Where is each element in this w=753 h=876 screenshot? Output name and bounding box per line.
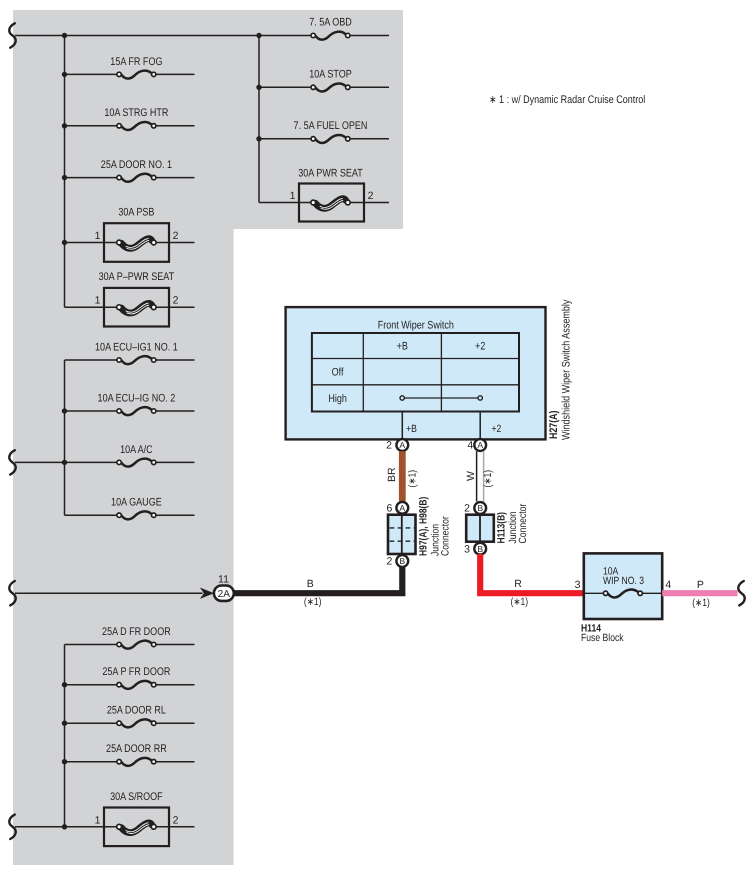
fuse box panel (lower): [13, 229, 234, 865]
svg-text:A: A: [477, 440, 483, 450]
svg-text:BR: BR: [386, 467, 398, 482]
svg-text:4: 4: [665, 579, 671, 591]
wire: left vertical bus segment 1: [64, 36, 66, 308]
svg-text:∗ 1 : w/ Dynamic Radar Cruise: ∗ 1 : w/ Dynamic Radar Cruise Control: [489, 94, 645, 106]
pin 2 (B) of junction connector H113: [464, 502, 486, 515]
svg-text:R: R: [514, 578, 522, 590]
svg-text:25A DOOR RR: 25A DOOR RR: [106, 743, 167, 755]
junction dot: [256, 85, 261, 90]
svg-text:B: B: [477, 544, 483, 554]
svg-text:+B: +B: [406, 423, 417, 435]
wire: feeder to 10A A/C row: [15, 461, 65, 463]
svg-text:2: 2: [464, 503, 470, 515]
svg-text:H97(A), H98(B): H97(A), H98(B): [418, 497, 430, 556]
svg-text:30A PWR SEAT: 30A PWR SEAT: [298, 167, 363, 179]
fuse 10A STOP: [259, 69, 389, 92]
fuse 30A P–PWR SEAT (cartridge): [65, 271, 195, 326]
fuse 25A D FR DOOR: [65, 626, 195, 649]
svg-text:4: 4: [467, 440, 473, 452]
designation H97(A), H98(B) Junction Connector: [418, 497, 452, 556]
wire: feeder to splice 2A: [15, 592, 203, 594]
pin 2 (B) of junction connector H97: [386, 555, 408, 568]
svg-text:10A GAUGE: 10A GAUGE: [111, 497, 162, 509]
continuation squiggle (right): [738, 581, 744, 605]
wire: right vertical bus: [258, 36, 260, 203]
svg-text:Connector: Connector: [440, 516, 452, 556]
junction dot: [62, 72, 67, 77]
junction dot: [62, 175, 67, 180]
fuse 30A S/ROOF (cartridge): [65, 791, 195, 846]
wire B (black) from H97 pin B to splice 2A: [234, 566, 403, 593]
wire: feeder to 30A S/ROOF row: [15, 826, 65, 828]
svg-text:A: A: [399, 440, 405, 450]
wire: +2 stub inside switch: [479, 412, 481, 439]
wire: left vertical bus segment 3: [64, 645, 66, 827]
pin 6 (A) of junction connector H97: [386, 502, 408, 515]
svg-text:25A P FR DOOR: 25A P FR DOOR: [102, 666, 170, 678]
continuation squiggle (2A feeder): [9, 581, 15, 605]
svg-text:B: B: [399, 556, 405, 566]
svg-text:15A FR FOG: 15A FR FOG: [110, 56, 162, 68]
svg-text:10A STOP: 10A STOP: [309, 69, 352, 81]
fuse box panel (upper): [13, 10, 403, 229]
svg-text:(∗1): (∗1): [482, 470, 494, 488]
svg-text:Windshield Wiper Switch Assemb: Windshield Wiper Switch Assembly: [561, 299, 573, 440]
continuation squiggle (S/ROOF feeder): [9, 815, 15, 839]
svg-text:7. 5A OBD: 7. 5A OBD: [309, 17, 352, 29]
fuse 25A DOOR NO. 1: [65, 159, 195, 182]
svg-text:Fuse Block: Fuse Block: [581, 632, 624, 644]
switch H27(A) Front Wiper Switch assembly box: [286, 307, 546, 439]
fuse 25A P FR DOOR: [65, 666, 195, 689]
svg-text:6: 6: [386, 503, 392, 515]
junction dot: [62, 123, 67, 128]
junction dot: [62, 460, 67, 465]
svg-text:2: 2: [173, 295, 179, 307]
fuse block H114 body: [584, 553, 662, 619]
svg-text:H113(B): H113(B): [495, 512, 507, 544]
svg-text:3: 3: [575, 579, 581, 591]
arrowhead into splice 2A: [200, 588, 214, 599]
junction dot: [62, 824, 67, 829]
fuse 25A DOOR RL: [65, 705, 195, 728]
svg-text:2: 2: [173, 814, 179, 826]
fuse 30A PSB (cartridge): [65, 207, 195, 262]
svg-text:(∗1): (∗1): [511, 596, 529, 608]
switch contact: High position bridge: [400, 396, 482, 400]
svg-text:3: 3: [464, 543, 470, 555]
svg-text:10A A/C: 10A A/C: [120, 444, 153, 456]
fuse 10A WIP NO. 3: [584, 566, 662, 598]
svg-text:30A P–PWR SEAT: 30A P–PWR SEAT: [99, 271, 175, 283]
junction dot: [62, 240, 67, 245]
svg-text:Front Wiper Switch: Front Wiper Switch: [378, 319, 454, 331]
designation H27(A) Windshield Wiper Switch Assembly: [548, 299, 573, 440]
wire: +B stub inside switch: [401, 412, 403, 439]
svg-text:2A: 2A: [218, 589, 231, 600]
svg-text:P: P: [697, 579, 704, 591]
svg-text:30A S/ROOF: 30A S/ROOF: [110, 791, 163, 803]
wire: left vertical bus segment 2: [64, 360, 66, 515]
svg-text:B: B: [477, 503, 483, 513]
svg-text:A: A: [399, 503, 405, 513]
svg-text:W: W: [465, 471, 477, 481]
switch contact table: [312, 333, 519, 412]
fuse 10A ECU–IG NO. 2: [65, 392, 195, 415]
svg-text:1: 1: [290, 190, 296, 202]
fuse 30A PWR SEAT (cartridge): [259, 167, 389, 221]
svg-text:25A D FR DOOR: 25A D FR DOOR: [102, 626, 171, 638]
fuse 10A STRG HTR: [65, 107, 195, 130]
fuse 7. 5A OBD: [309, 17, 352, 40]
designation H114 Fuse Block: [581, 623, 624, 645]
junction connector H97(A), H98(B) body: [388, 515, 416, 554]
svg-text:(∗1): (∗1): [692, 597, 710, 609]
fuse 10A A/C: [65, 444, 195, 467]
svg-text:10A ECU–IG NO. 2: 10A ECU–IG NO. 2: [98, 392, 176, 404]
svg-text:25A DOOR RL: 25A DOOR RL: [107, 705, 166, 717]
junction dot (bus to right column): [256, 33, 261, 38]
wire BR: [399, 451, 406, 501]
wire P (pink): [662, 590, 737, 596]
fuse 7. 5A FUEL OPEN: [259, 120, 389, 143]
svg-text:2: 2: [386, 556, 392, 568]
svg-text:10A STRG HTR: 10A STRG HTR: [104, 107, 168, 119]
svg-text:10A ECU–IG1 NO. 1: 10A ECU–IG1 NO. 1: [95, 341, 178, 353]
pin 2 (A) of H27: [386, 439, 408, 452]
svg-text:(∗1): (∗1): [304, 596, 322, 608]
svg-text:Off: Off: [332, 366, 345, 378]
svg-text:B: B: [307, 578, 314, 590]
svg-text:High: High: [328, 393, 347, 405]
svg-text:2: 2: [368, 190, 374, 202]
wire: main bus from battery: [15, 35, 311, 37]
continuation squiggle (top-left): [9, 23, 15, 47]
svg-text:25A DOOR NO. 1: 25A DOOR NO. 1: [101, 159, 172, 171]
junction dot: [62, 682, 67, 687]
svg-text:WIP NO. 3: WIP NO. 3: [603, 575, 644, 587]
svg-text:+2: +2: [492, 423, 502, 435]
pin 4 (A) of H27: [467, 439, 486, 452]
junction dot: [62, 408, 67, 413]
fuse 10A ECU–IG1 NO. 1: [65, 341, 195, 364]
pin 3 (B) of junction connector H113: [464, 543, 486, 556]
wire W (white, outlined): [477, 451, 484, 501]
junction dot: [62, 721, 67, 726]
continuation squiggle (A/C feeder): [9, 450, 15, 474]
svg-text:2: 2: [173, 230, 179, 242]
svg-text:+B: +B: [397, 340, 408, 352]
svg-text:1: 1: [95, 295, 101, 307]
junction dot (bus to left column): [62, 33, 67, 38]
svg-text:30A PSB: 30A PSB: [118, 207, 154, 219]
svg-text:2: 2: [386, 440, 392, 452]
svg-text:1: 1: [95, 230, 101, 242]
svg-text:11: 11: [218, 573, 229, 585]
fuse 25A DOOR RR: [65, 743, 195, 766]
svg-text:H27(A): H27(A): [548, 410, 560, 439]
wire R (red) from H113 pin B to fuse block: [480, 554, 584, 593]
splice connector 2A: [214, 586, 234, 601]
svg-text:Connector: Connector: [517, 503, 529, 543]
svg-text:7. 5A FUEL OPEN: 7. 5A FUEL OPEN: [294, 120, 368, 132]
junction dot: [256, 136, 261, 141]
svg-text:(∗1): (∗1): [406, 470, 418, 488]
svg-text:+2: +2: [475, 340, 485, 352]
junction connector H113(B) body: [466, 515, 494, 542]
svg-text:1: 1: [95, 814, 101, 826]
junction dot: [62, 759, 67, 764]
fuse 10A GAUGE: [65, 497, 195, 520]
designation H113(B) Junction Connector: [495, 503, 529, 543]
fuse 15A FR FOG: [65, 56, 195, 79]
